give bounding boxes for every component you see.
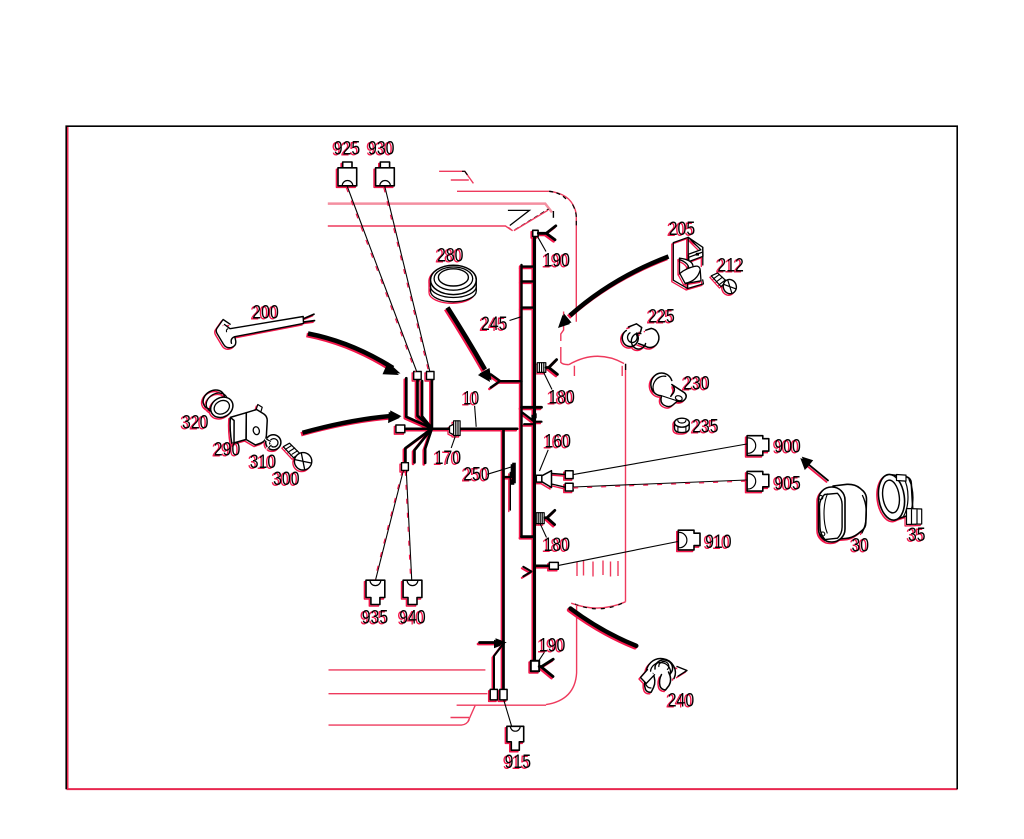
- svg-text:170: 170: [435, 448, 462, 469]
- door rear pillar black tick: [625, 364, 627, 370]
- svg-text:910: 910: [705, 532, 732, 553]
- rocker sill comb tick 5: [610, 562, 612, 577]
- door bottom edge black dashes: [575, 603, 622, 609]
- roof corner black dash lower: [573, 205, 577, 227]
- leader 180 top: [544, 373, 552, 390]
- leader 900: [573, 444, 747, 475]
- rocker sill top pink line: [457, 704, 546, 706]
- harness artwork red highlight copy: [198, 164, 920, 752]
- leader 930: [385, 187, 430, 372]
- quarter panel slash mark B red underlay: [514, 210, 548, 230]
- svg-text:190: 190: [539, 636, 566, 657]
- svg-text:245: 245: [481, 314, 508, 335]
- roof drip rail pink line with corner arc: [457, 191, 576, 321]
- rocker sill comb tick 2: [583, 561, 585, 576]
- rocker sill short pink line: [451, 717, 470, 719]
- svg-text:290: 290: [214, 439, 241, 460]
- svg-text:900: 900: [774, 437, 801, 458]
- leader 925: [347, 187, 416, 372]
- svg-text:935: 935: [362, 607, 389, 628]
- quarter panel slash mark A: [508, 210, 530, 225]
- door bottom edge pink curve: [571, 602, 625, 608]
- leader 915: [504, 700, 512, 726]
- svg-text:35: 35: [908, 525, 926, 546]
- floor pan pink line 2: [329, 693, 488, 695]
- svg-text:180: 180: [544, 535, 571, 556]
- roof cut hatch line 1 black corner: [462, 171, 467, 175]
- door rear pillar pink vertical: [625, 364, 627, 602]
- rocker sill comb tick 6: [617, 561, 619, 576]
- quarter panel slash mark B black-red dashed diagonal: [515, 209, 549, 230]
- svg-text:160: 160: [545, 432, 572, 453]
- leader 935 red dashes: [375, 471, 403, 580]
- quarter panel slash mark A red tail: [508, 227, 512, 230]
- leader 170: [451, 436, 455, 448]
- rocker sill comb tick 3: [592, 562, 594, 577]
- door arch right corner tick: [621, 366, 623, 376]
- svg-text:905: 905: [774, 474, 801, 495]
- frame black border top left right: [66, 126, 957, 789]
- svg-text:10: 10: [463, 389, 479, 410]
- roof cut hatch line 1: [439, 171, 473, 183]
- svg-text:230: 230: [683, 373, 710, 394]
- svg-text:30: 30: [852, 536, 870, 557]
- svg-text:250: 250: [463, 465, 490, 486]
- leader 930 red dashes: [384, 188, 429, 373]
- leader 245: [510, 317, 522, 321]
- leader 940 red dashes: [405, 471, 410, 580]
- door frame inner edge short pink vertical: [561, 312, 564, 342]
- leader 940: [406, 471, 411, 580]
- svg-text:200: 200: [252, 303, 278, 324]
- door frame lower jog pink: [561, 347, 569, 365]
- svg-text:300: 300: [273, 469, 300, 490]
- svg-text:240: 240: [668, 690, 695, 711]
- leader 160: [540, 450, 549, 471]
- svg-text:190: 190: [544, 251, 571, 272]
- leader 10: [475, 406, 477, 427]
- leader 935: [376, 471, 404, 580]
- body waistline upper thick pink line: [328, 204, 552, 213]
- frame crimson border left and bottom: [68, 127, 958, 789]
- leader 190 top: [538, 237, 546, 252]
- svg-text:205: 205: [669, 219, 696, 240]
- wire tick black at waistline end: [552, 211, 554, 218]
- rocker sill comb tick 4: [602, 561, 604, 576]
- leader 925 red dashes: [346, 188, 415, 373]
- body waistline lower pink line: [328, 226, 511, 230]
- leader 180 lower: [540, 524, 546, 538]
- roof cut hatch line 2: [451, 179, 469, 181]
- svg-text:320: 320: [182, 412, 209, 433]
- harness artwork black line copy: [200, 162, 922, 750]
- svg-text:225: 225: [648, 306, 675, 327]
- leader 190 bottom: [539, 651, 546, 661]
- door window arch pink: [569, 356, 624, 364]
- door arch left corner tick: [573, 366, 575, 376]
- rocker sill notch diagonal: [468, 706, 475, 722]
- svg-text:235: 235: [692, 416, 719, 437]
- svg-text:930: 930: [368, 139, 395, 160]
- svg-text:925: 925: [334, 139, 361, 160]
- leader 910: [559, 542, 679, 566]
- leader 905: [573, 480, 747, 487]
- svg-text:180: 180: [548, 388, 575, 409]
- svg-text:915: 915: [505, 752, 531, 773]
- rocker sill comb tick 1: [576, 562, 578, 577]
- svg-text:940: 940: [399, 607, 426, 628]
- leader 905 red dashes: [573, 481, 747, 488]
- rocker sill bottom pink line: [329, 720, 470, 726]
- svg-text:280: 280: [437, 246, 464, 267]
- wheel arch front edge pink: [546, 605, 577, 705]
- roof corner black dashes: [549, 191, 566, 199]
- svg-text:212: 212: [717, 255, 744, 276]
- floor pan pink line 1: [329, 669, 486, 671]
- leader 250: [487, 467, 512, 475]
